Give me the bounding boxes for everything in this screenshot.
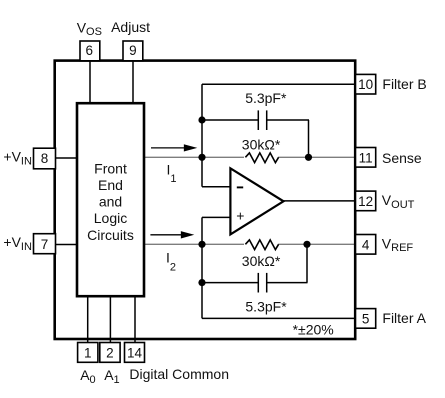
svg-text:End: End xyxy=(98,177,123,193)
svg-text:Logic: Logic xyxy=(94,210,127,226)
svg-text:Adjust: Adjust xyxy=(111,19,150,35)
svg-text:Digital Common: Digital Common xyxy=(129,366,229,382)
svg-text:Filter B: Filter B xyxy=(382,76,426,92)
svg-text:+: + xyxy=(236,208,244,224)
svg-text:5.3pF*: 5.3pF* xyxy=(245,90,287,106)
svg-text:2: 2 xyxy=(106,345,114,360)
svg-text:30kΩ*: 30kΩ* xyxy=(242,253,281,269)
svg-text:4: 4 xyxy=(362,237,370,252)
svg-text:7: 7 xyxy=(41,237,49,252)
svg-text:30kΩ*: 30kΩ* xyxy=(242,136,281,152)
svg-text:Circuits: Circuits xyxy=(87,227,134,243)
svg-text:12: 12 xyxy=(358,194,373,209)
svg-text:*±20%: *±20% xyxy=(293,321,334,337)
svg-text:5: 5 xyxy=(362,311,370,326)
svg-text:Front: Front xyxy=(94,161,127,177)
svg-text:10: 10 xyxy=(358,77,373,92)
svg-text:8: 8 xyxy=(41,151,49,166)
svg-text:14: 14 xyxy=(127,345,143,360)
svg-text:6: 6 xyxy=(86,43,94,58)
svg-text:and: and xyxy=(99,194,122,210)
svg-text:5.3pF*: 5.3pF* xyxy=(245,298,287,314)
svg-text:Filter A: Filter A xyxy=(382,310,426,326)
svg-text:1: 1 xyxy=(84,345,92,360)
svg-text:Sense: Sense xyxy=(382,150,422,166)
svg-text:9: 9 xyxy=(129,43,137,58)
svg-text:11: 11 xyxy=(359,150,373,165)
